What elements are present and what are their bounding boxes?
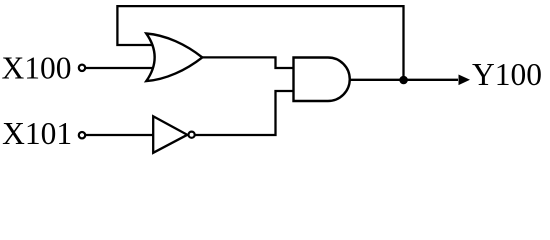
wire: X101 input to inverter	[86, 134, 156, 136]
terminal circle X100	[79, 65, 85, 71]
arrowhead to Y100	[459, 75, 471, 86]
wire: X100 input to OR gate	[86, 67, 158, 69]
inverter U3 triangle	[153, 116, 187, 153]
wire: inverter output to AND bottom input	[196, 91, 297, 135]
wire: feedback loop (top) from output node to OR top input	[117, 6, 403, 80]
wire: OR output to AND top input	[200, 57, 296, 68]
node: output junction dot	[399, 76, 408, 85]
svg-text:X100: X100	[2, 51, 72, 86]
svg-text:X101: X101	[2, 116, 72, 151]
or-gate U1	[146, 34, 202, 82]
inverter U3 bubble	[189, 132, 195, 138]
terminal circle X101	[79, 132, 85, 138]
svg-text:Y100: Y100	[472, 57, 542, 92]
wire: AND output to Y100 arrow	[348, 79, 458, 81]
and-gate U2	[294, 58, 350, 102]
